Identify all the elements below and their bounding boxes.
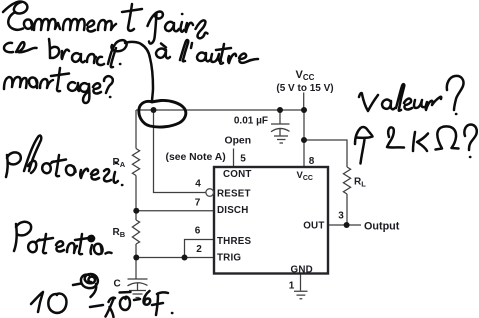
handwriting montage e bbox=[93, 83, 101, 93]
IC U1 555 timer body bbox=[214, 167, 328, 274]
capacitor 0.01uF stub bbox=[279, 110, 281, 124]
svg-text:(see Note A): (see Note A) bbox=[166, 152, 226, 163]
ground below C bbox=[129, 291, 146, 298]
handwriting Potentio i dot blob bbox=[89, 236, 95, 241]
handwriting Valeur r bbox=[426, 97, 442, 110]
wire THRES branch bbox=[185, 240, 215, 258]
handwriting ce c bbox=[4, 43, 13, 52]
handwriting montage t bbox=[51, 68, 69, 91]
handwriting Potentio t bbox=[38, 234, 53, 253]
handwriting 2 bbox=[387, 127, 404, 147]
handwriting Photoresi o bbox=[42, 162, 53, 174]
handwriting montage question bbox=[104, 76, 113, 97]
handwriting 0 of 1e-9 bbox=[48, 294, 66, 313]
handwriting montage o bbox=[29, 78, 37, 88]
ground below GND bbox=[294, 291, 308, 299]
handwriting Valeur question bbox=[447, 76, 464, 114]
handwriting Comment t bbox=[122, 4, 142, 31]
handwriting montage a bbox=[68, 82, 79, 91]
wire OUT pin3 bbox=[328, 224, 361, 226]
wire CONT pin5 stub bbox=[233, 149, 235, 168]
handwriting Valeur a bbox=[382, 100, 395, 110]
handwriting a-grave a bbox=[156, 44, 170, 59]
handwriting 1 of 1e-6 bbox=[106, 298, 116, 317]
resistor RL bbox=[343, 167, 350, 194]
handwriting faire e bbox=[196, 20, 208, 38]
svg-text:TRIG: TRIG bbox=[217, 252, 241, 263]
junction RA-RB bbox=[133, 208, 139, 214]
handwriting autre u bbox=[211, 54, 221, 62]
handwriting Valeur V bbox=[359, 93, 378, 111]
junction RL tap bbox=[301, 137, 307, 143]
handwriting branch n bbox=[87, 54, 96, 63]
wire VCC pin8 stub bbox=[303, 110, 305, 167]
svg-text:RA: RA bbox=[113, 157, 126, 169]
handwriting montage n bbox=[40, 79, 53, 88]
handwriting exponent 9 scribble bbox=[81, 274, 98, 297]
handwriting Comment m2 bbox=[63, 19, 85, 30]
handwriting faire f bbox=[148, 12, 163, 44]
wire C stub bbox=[135, 258, 137, 279]
handwriting faire r bbox=[186, 23, 193, 32]
handwriting faire a bbox=[165, 22, 179, 31]
handwriting Omega bbox=[436, 126, 459, 149]
reset bubble pin4 bbox=[206, 189, 214, 197]
handwriting Potentio o bbox=[28, 240, 39, 253]
handwriting ce e bbox=[16, 42, 37, 52]
capacitor 0.01uF plates bbox=[271, 124, 290, 136]
handwriting Potentio o2 dash bbox=[94, 244, 112, 254]
handwriting Photoresi P bbox=[6, 152, 21, 177]
handwriting montage m bbox=[4, 77, 27, 89]
handwriting Photoresi s bbox=[104, 169, 111, 181]
svg-text:VCC: VCC bbox=[296, 69, 315, 82]
handwriting exponent dash bbox=[73, 284, 81, 286]
svg-text:C: C bbox=[114, 279, 121, 290]
handwriting Potentio i bbox=[91, 245, 92, 254]
handwriting Photoresi i bbox=[114, 163, 123, 185]
svg-text:2: 2 bbox=[196, 244, 202, 255]
svg-text:VCC: VCC bbox=[297, 170, 313, 182]
handwriting Valeur u bbox=[414, 100, 424, 108]
handwriting Potentio e bbox=[56, 241, 64, 251]
handwriting Potentio t2 bbox=[75, 234, 89, 254]
handwriting range dash bbox=[90, 305, 103, 307]
handwriting Photoresi h bbox=[24, 136, 41, 173]
resistor RA bbox=[132, 149, 139, 176]
wire RB to bottom node bbox=[135, 244, 137, 258]
handwriting 0 of 1e-6 bbox=[120, 292, 131, 310]
handwriting autre t bbox=[216, 44, 231, 64]
handwriting branch a bbox=[72, 53, 85, 62]
handwriting arrow flag bbox=[355, 127, 373, 164]
junction pin8 rail bbox=[301, 107, 307, 113]
handwriting Photoresi t bbox=[52, 155, 66, 176]
handwriting blob circle bbox=[139, 100, 186, 127]
handwriting Comment o bbox=[24, 20, 32, 30]
junction RB-C bbox=[133, 255, 139, 261]
capacitor C plates bbox=[128, 279, 148, 290]
handwriting branch b bbox=[49, 39, 59, 58]
wire VCC stub bbox=[303, 93, 305, 111]
wire left rail above RA bbox=[135, 110, 137, 149]
wire top VCC rail bbox=[136, 109, 304, 111]
svg-text:3: 3 bbox=[338, 211, 344, 222]
handwriting Photoresi o2 bbox=[66, 165, 76, 175]
handwriting Comment C bbox=[3, 2, 27, 30]
handwriting branch r bbox=[62, 50, 69, 59]
junction OUT node bbox=[344, 222, 350, 228]
handwriting Comment n bbox=[98, 20, 116, 30]
handwriting l apostrophe bbox=[180, 40, 192, 61]
svg-text:1: 1 bbox=[289, 281, 295, 292]
handwriting 6 of 1e-6 bbox=[144, 291, 151, 305]
svg-text:4: 4 bbox=[195, 179, 201, 190]
junction THRES-TRIG bbox=[182, 255, 188, 261]
wire node to RB bbox=[135, 211, 137, 220]
handwriting Comment e bbox=[87, 21, 95, 32]
handwriting F unit bbox=[152, 292, 172, 315]
handwriting Photoresi r bbox=[80, 169, 88, 178]
wire RA to node bbox=[135, 176, 137, 212]
svg-text:OUT: OUT bbox=[303, 221, 324, 232]
handwriting autre a bbox=[197, 53, 210, 62]
handwriting autre e bbox=[239, 54, 258, 63]
handwriting pointer curve bbox=[125, 42, 153, 102]
svg-text:Output: Output bbox=[364, 220, 400, 232]
wire DISCH pin7 bbox=[136, 210, 214, 212]
handwriting faire i bbox=[181, 14, 184, 32]
svg-text:0.01 µF: 0.01 µF bbox=[234, 116, 268, 127]
handwriting kohm question bbox=[464, 125, 476, 158]
wire GND pin1 bbox=[300, 274, 302, 291]
handwriting branch h flag bbox=[108, 40, 127, 67]
handwriting autre r bbox=[228, 54, 236, 63]
svg-text:CONT: CONT bbox=[223, 169, 252, 180]
svg-text:RB: RB bbox=[113, 227, 126, 239]
handwriting 1 of 1e-9 bbox=[31, 292, 43, 312]
svg-text:THRES: THRES bbox=[217, 236, 251, 247]
svg-text:(5 V to 15 V): (5 V to 15 V) bbox=[276, 83, 333, 94]
handwriting Valeur e bbox=[404, 99, 412, 110]
junction 0.01uF bbox=[277, 107, 283, 113]
handwriting Potentio n bbox=[67, 243, 77, 253]
wire RL to OUT node bbox=[346, 194, 348, 225]
wire TRIG pin2 bbox=[136, 257, 214, 259]
handwriting montage g bbox=[80, 83, 89, 103]
svg-text:Open: Open bbox=[225, 136, 252, 147]
resistor RB bbox=[132, 220, 139, 244]
wire RESET branch pin4 bbox=[154, 110, 206, 193]
svg-text:8: 8 bbox=[309, 156, 315, 167]
handwriting Valeur l bbox=[396, 84, 404, 111]
svg-text:DISCH: DISCH bbox=[217, 205, 248, 216]
handwriting minus of 1e-6 bbox=[134, 299, 140, 300]
svg-text:RL: RL bbox=[354, 177, 366, 189]
handwriting Photoresi e bbox=[91, 170, 99, 180]
wire RL branch top bbox=[304, 140, 347, 167]
svg-text:7: 7 bbox=[195, 198, 201, 209]
handwriting Comment m1 bbox=[34, 19, 60, 30]
handwriting branch c bbox=[97, 57, 104, 65]
handwriting K bbox=[413, 132, 428, 151]
svg-text:RESET: RESET bbox=[217, 188, 251, 199]
svg-text:GND: GND bbox=[291, 264, 313, 275]
svg-text:6: 6 bbox=[195, 226, 201, 237]
handwriting Potentio P bbox=[14, 222, 31, 251]
svg-text:5: 5 bbox=[240, 154, 246, 165]
ground below 0.01uF bbox=[274, 136, 288, 143]
junction node blob circled bbox=[151, 107, 157, 113]
